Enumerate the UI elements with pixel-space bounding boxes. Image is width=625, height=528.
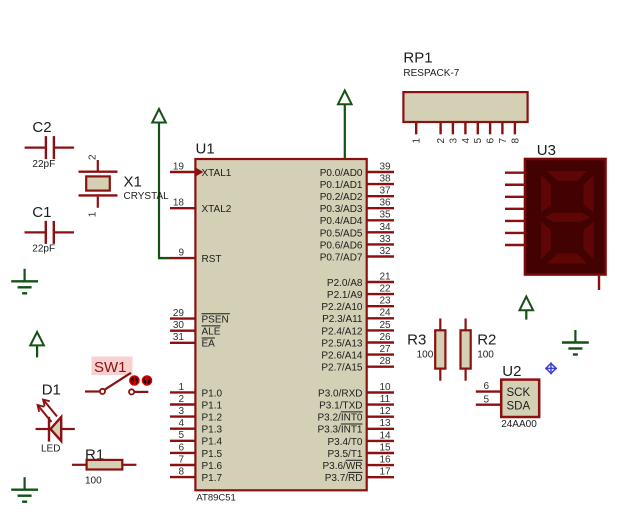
svg-text:6: 6 [486,138,497,144]
svg-text:SDA: SDA [507,400,531,412]
svg-text:21: 21 [379,271,391,282]
svg-text:28: 28 [379,356,391,367]
svg-text:4: 4 [461,138,472,144]
svg-text:6: 6 [178,442,184,453]
svg-text:27: 27 [379,344,391,355]
svg-text:RST: RST [202,254,222,265]
svg-text:38: 38 [379,173,391,184]
svg-text:14: 14 [379,430,391,441]
svg-text:P2.7/A15: P2.7/A15 [321,363,363,374]
svg-text:P2.3/A11: P2.3/A11 [322,314,363,325]
svg-text:U2: U2 [502,363,521,380]
svg-text:R2: R2 [477,332,496,349]
svg-text:P1.2: P1.2 [202,413,223,424]
svg-text:P3.4/T0: P3.4/T0 [327,437,362,448]
svg-text:P0.3/AD3: P0.3/AD3 [320,204,363,215]
svg-text:P2.0/A8: P2.0/A8 [327,278,363,289]
svg-text:22: 22 [379,284,391,295]
svg-text:32: 32 [379,246,391,257]
svg-text:15: 15 [379,442,391,453]
svg-text:37: 37 [379,186,391,197]
svg-text:30: 30 [173,320,185,331]
svg-text:P3.7/RD: P3.7/RD [325,473,363,484]
svg-text:P3.0/RXD: P3.0/RXD [318,388,362,399]
svg-text:P1.5: P1.5 [202,449,223,460]
svg-text:XTAL1: XTAL1 [202,168,232,179]
svg-text:36: 36 [379,198,391,209]
svg-text:U1: U1 [196,141,215,158]
svg-text:XTAL2: XTAL2 [202,204,232,215]
svg-text:7: 7 [498,138,509,144]
svg-text:100: 100 [477,349,494,360]
svg-text:ALE: ALE [202,327,221,338]
svg-text:9: 9 [178,248,184,259]
svg-text:24: 24 [379,308,391,319]
svg-text:35: 35 [379,210,391,221]
svg-text:18: 18 [173,198,185,209]
svg-text:1: 1 [178,382,184,393]
svg-text:P3.1/TXD: P3.1/TXD [319,401,362,412]
svg-text:P1.7: P1.7 [202,473,223,484]
svg-text:29: 29 [173,308,185,319]
svg-text:P0.0/AD0: P0.0/AD0 [320,168,363,179]
svg-text:11: 11 [380,394,391,405]
svg-text:C1: C1 [32,204,51,221]
svg-text:39: 39 [379,161,391,172]
svg-text:1: 1 [412,138,423,144]
svg-text:2: 2 [88,154,99,160]
svg-text:AT89C51: AT89C51 [196,493,235,504]
svg-text:22pF: 22pF [32,244,55,255]
svg-text:P3.3/INT1: P3.3/INT1 [317,425,362,436]
svg-text:16: 16 [379,455,391,466]
svg-text:22pF: 22pF [32,159,55,170]
svg-text:100: 100 [417,349,434,360]
svg-text:P1.1: P1.1 [202,400,223,411]
svg-text:P0.2/AD2: P0.2/AD2 [320,192,363,203]
svg-text:P0.4/AD4: P0.4/AD4 [320,216,363,227]
svg-text:12: 12 [379,406,391,417]
svg-text:R3: R3 [407,332,426,349]
svg-text:100: 100 [85,475,102,486]
svg-text:13: 13 [379,418,391,429]
svg-text:X1: X1 [124,174,142,191]
svg-text:C2: C2 [32,119,51,136]
svg-text:8: 8 [178,467,184,478]
svg-text:5: 5 [178,430,184,441]
svg-text:25: 25 [379,320,391,331]
svg-text:3: 3 [448,138,459,144]
svg-text:P0.1/AD1: P0.1/AD1 [320,180,363,191]
svg-text:19: 19 [173,161,185,172]
svg-text:P1.4: P1.4 [202,437,223,448]
svg-text:P0.7/AD7: P0.7/AD7 [320,252,363,263]
svg-text:D1: D1 [42,382,61,399]
svg-text:SW1: SW1 [94,359,127,376]
svg-text:SCK: SCK [507,387,531,399]
svg-text:P1.3: P1.3 [202,425,223,436]
svg-text:LED: LED [41,443,60,454]
svg-text:5: 5 [473,138,484,144]
svg-text:P2.2/A10: P2.2/A10 [321,302,363,313]
svg-text:24AA00: 24AA00 [501,419,537,430]
svg-text:RESPACK-7: RESPACK-7 [403,68,459,79]
svg-text:17: 17 [379,467,391,478]
svg-text:PSEN: PSEN [202,315,229,326]
svg-text:26: 26 [379,332,391,343]
svg-text:7: 7 [178,454,184,465]
svg-text:8: 8 [510,138,521,144]
svg-text:3: 3 [178,406,184,417]
svg-text:P2.5/A13: P2.5/A13 [321,338,363,349]
svg-text:34: 34 [379,222,391,233]
svg-text:P0.6/AD6: P0.6/AD6 [320,240,363,251]
svg-text:P1.6: P1.6 [202,461,223,472]
svg-text:2: 2 [436,138,447,144]
svg-text:6: 6 [483,381,489,392]
svg-text:2: 2 [178,394,184,405]
svg-text:10: 10 [379,382,391,393]
svg-text:P2.6/A14: P2.6/A14 [321,351,363,362]
svg-text:P3.5/T1: P3.5/T1 [327,449,362,460]
svg-text:RP1: RP1 [403,49,432,66]
svg-text:33: 33 [379,234,391,245]
svg-text:P2.4/A12: P2.4/A12 [321,326,363,337]
svg-text:P1.0: P1.0 [202,388,223,399]
svg-text:CRYSTAL: CRYSTAL [124,191,170,202]
svg-text:U3: U3 [537,142,556,159]
svg-text:31: 31 [173,332,185,343]
svg-text:23: 23 [379,296,391,307]
svg-text:P2.1/A9: P2.1/A9 [327,290,363,301]
svg-text:P3.2/INT0: P3.2/INT0 [317,413,362,424]
svg-text:5: 5 [483,394,489,405]
svg-text:P3.6/WR: P3.6/WR [322,461,362,472]
svg-text:4: 4 [178,418,184,429]
svg-text:1: 1 [88,211,99,217]
svg-text:P0.5/AD5: P0.5/AD5 [320,228,363,239]
svg-text:EA: EA [202,339,216,350]
